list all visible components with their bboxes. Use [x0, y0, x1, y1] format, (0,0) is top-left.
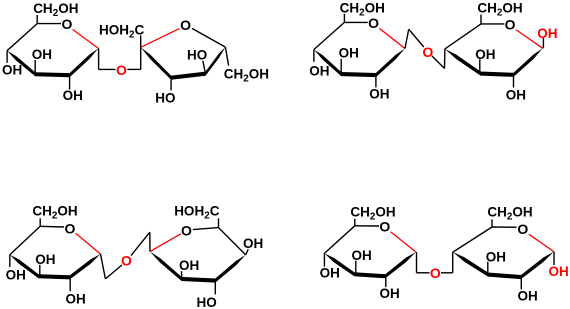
G6 stem C1 down to anomeric OH — [553, 252, 555, 265]
G4 bond O-C1 (red) — [76, 233, 101, 254]
svg-text:OH: OH — [2, 63, 22, 78]
svg-text:OH: OH — [179, 258, 199, 273]
G5 bond O-C1 (red) — [391, 232, 416, 252]
svg-text:O: O — [61, 16, 72, 32]
G3 bond C2-OH — [513, 75, 515, 88]
G2 bond C4-C5 — [314, 22, 345, 49]
F1 bond C3-HO — [170, 78, 172, 91]
maltose link bond peak down to O — [409, 29, 424, 47]
G4 bond C4-C5 — [10, 226, 40, 254]
svg-text:OH: OH — [63, 88, 83, 103]
G7 bond C2-OH — [181, 271, 183, 279]
svg-text:O: O — [430, 265, 441, 281]
cellobiose link bond C1 down — [416, 252, 418, 273]
G6 bond O-C1 (red) — [529, 234, 554, 251]
G5 bond C4-OH — [323, 253, 325, 266]
G5 bond C5-O (ring) — [355, 225, 379, 227]
maltose link bond O down to valley — [432, 56, 445, 69]
cellobiose link bond O to G6 — [441, 272, 453, 274]
svg-text:OH: OH — [6, 268, 26, 283]
G1 bond C2-OH — [69, 75, 71, 90]
maltose link bond valley up to C4 of G3 — [444, 49, 446, 69]
trehalose link bond C1 down to valley — [101, 254, 106, 279]
G3 stem C1 up to anomeric OH — [542, 38, 544, 48]
G4 stem C5-CH2OH — [39, 218, 41, 226]
G3 bond C5-O (ring) — [481, 23, 504, 25]
G4 bond C5-O (ring) — [40, 225, 64, 228]
F1 stem HOH2C-C2 — [140, 35, 142, 47]
G5 bond C3-OH — [355, 261, 357, 273]
G6 bond C5-O (ring) — [492, 226, 517, 228]
G4 bond C2-OH — [69, 277, 71, 291]
sucrose link bond to O — [99, 68, 116, 70]
svg-text:O: O — [368, 15, 379, 31]
G2 stem C5-CH2OH — [343, 14, 345, 23]
G7 bold front edge C1-C2-C3-C4 — [150, 252, 246, 283]
G5 bond C4-C5 — [324, 226, 354, 254]
G6 stem C5-CH2OH — [491, 219, 493, 227]
maltose link bond C1 up to peak — [405, 29, 409, 48]
svg-text:OH: OH — [243, 236, 263, 251]
G3 bond C3-OH — [479, 59, 481, 72]
G1 stem C5-CH2OH — [36, 15, 38, 24]
trehalose link bond valley up to O — [105, 265, 122, 279]
svg-text:OH: OH — [380, 286, 400, 301]
svg-text:OH: OH — [537, 26, 557, 41]
G3 bond C4-C5 — [445, 24, 481, 49]
G7 bond O-C5 — [193, 228, 219, 230]
G2 bond C3-OH — [340, 59, 342, 73]
G2 bond C5-O (ring) — [344, 21, 367, 23]
F1 bond C4-HO — [203, 61, 206, 74]
G1 bond C3-OH — [34, 60, 36, 73]
F1 bond C5-CH2OH — [225, 47, 228, 66]
svg-text:OH: OH — [309, 63, 329, 78]
G4 bond C4-OH — [9, 255, 11, 267]
svg-text:O: O — [180, 17, 191, 33]
svg-text:OH: OH — [352, 248, 372, 263]
svg-text:HO: HO — [155, 91, 175, 106]
svg-text:OH: OH — [320, 266, 340, 281]
sucrose link bond O to fructose — [127, 68, 140, 70]
trehalose link bond O up to peak — [131, 232, 150, 255]
svg-text:HO: HO — [187, 48, 207, 63]
G6 bond C4-C5 — [453, 227, 492, 252]
svg-text:OH: OH — [475, 47, 495, 62]
svg-text:OH: OH — [486, 249, 506, 264]
G4 bold front edge C4-C3-C2-C1 — [10, 254, 101, 279]
G5 stem C5-CH2OH — [354, 219, 356, 226]
G2 bold front edge C4-C3-C2-C1 — [314, 49, 405, 78]
svg-text:O: O — [181, 223, 192, 239]
trehalose link bond peak down to C1 of G7 — [149, 232, 151, 251]
svg-text:O: O — [517, 221, 528, 237]
G2 bond C4-OH — [313, 50, 315, 62]
svg-text:OH: OH — [32, 47, 52, 62]
G4 bond C3-OH — [39, 265, 41, 275]
sucrose link bond up to fructose C2 — [140, 47, 142, 69]
G3 bold front edge C4-C3-C2-C1 — [445, 48, 543, 77]
svg-text:OH: OH — [506, 87, 526, 102]
G5 bond C2-OH — [385, 276, 387, 287]
svg-text:O: O — [64, 221, 75, 237]
G3 stem C5-CH2OH — [480, 15, 482, 24]
svg-text:OH: OH — [549, 264, 569, 279]
svg-text:OH: OH — [35, 252, 55, 267]
G7 bond C1-O (red) — [150, 234, 181, 252]
G6 bond C2-OH — [520, 277, 522, 289]
cellobiose link bond up to C4 of G6 — [452, 252, 454, 273]
svg-text:OH: OH — [66, 291, 86, 306]
G7 bond C4-OH — [246, 249, 249, 255]
svg-text:O: O — [116, 62, 127, 78]
G7 bond C3-HO — [214, 281, 216, 294]
svg-text:O: O — [379, 219, 390, 235]
svg-text:O: O — [505, 17, 516, 33]
G1 bond O-C1 (red) — [73, 29, 99, 48]
F1 bond C2-O (red) — [141, 29, 180, 48]
G3 bond O-C1 (red) — [516, 30, 543, 49]
G7 bond C5-C4 — [219, 228, 246, 255]
G1 bond C5-O (ring) — [37, 23, 61, 25]
sucrose glycosidic link: bond C1 down — [98, 48, 100, 69]
G2 bond O-C1 (red) — [379, 28, 405, 48]
G1 bond C4-C5 — [7, 24, 37, 51]
G6 bond C3-OH — [487, 262, 489, 274]
svg-text:OH: OH — [339, 45, 359, 60]
svg-text:OH: OH — [518, 289, 538, 304]
svg-text:HO: HO — [197, 295, 217, 309]
F1 bond O-C5 — [192, 28, 225, 47]
G7 stem C5-HOH2C — [218, 218, 220, 227]
G1 bond C4-OH — [6, 51, 8, 63]
G5 bold front edge C4-C3-C2-C1 — [324, 252, 416, 278]
cellobiose link bond to O — [417, 272, 430, 274]
svg-text:O: O — [422, 44, 433, 60]
G2 bond C2-OH — [375, 75, 377, 87]
svg-text:O: O — [121, 252, 132, 268]
svg-text:OH: OH — [369, 87, 389, 102]
G6 bold front edge C4-C3-C2-C1 — [453, 252, 554, 280]
F1 bold front edge C2-C3-C4-C5 — [141, 47, 226, 80]
G1 bold front edge C4-C3-C2-C1 — [7, 48, 98, 77]
